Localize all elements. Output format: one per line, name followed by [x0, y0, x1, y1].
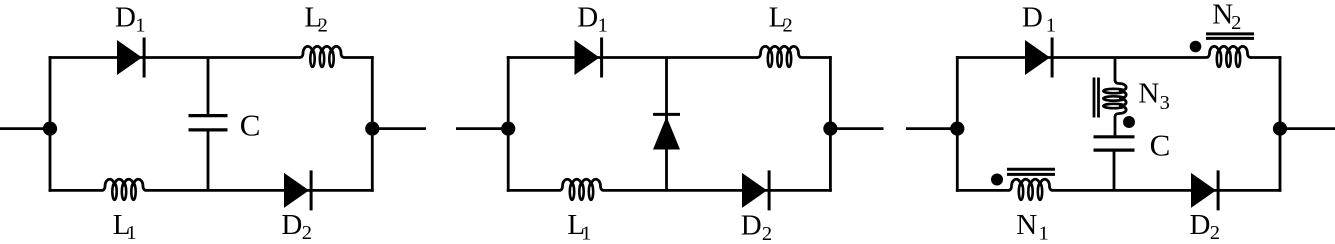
winding N1 (circuit3 bottom-left) [1008, 179, 1053, 200]
inductor L1 (circuit2) [559, 179, 604, 200]
svg-text:L2: L2 [769, 1, 793, 36]
diode D1 (circuit1) [117, 38, 144, 78]
svg-text:C: C [1150, 128, 1171, 163]
wire: circuit3 middle branch lower [1113, 152, 1116, 191]
diode D1 (circuit2) [575, 38, 602, 78]
wire: circuit3 left input lead [906, 127, 957, 130]
winding N3 (circuit3 middle branch) [1103, 80, 1126, 117]
polarity dot of winding N1 [991, 174, 1003, 186]
wire: circuit2 top rail right segment [802, 56, 832, 59]
wire: circuit2 bottom rail left segment [507, 189, 559, 192]
wire: circuit2 top rail left segment [507, 56, 757, 59]
wire: circuit2 right vertical [829, 56, 832, 192]
wire: circuit2 middle branch vertical [665, 58, 668, 191]
core bar upper of winding N2 [1206, 32, 1254, 35]
svg-text:D1: D1 [577, 1, 608, 36]
wire: circuit3 left vertical [956, 56, 959, 192]
wire: circuit3 right output lead [1280, 127, 1335, 130]
core bar lower of winding N2 [1206, 37, 1254, 40]
wire: circuit1 right output lead [372, 127, 426, 130]
svg-text:D2: D2 [281, 209, 312, 244]
wire: circuit1 bottom rail right segment [147, 189, 374, 192]
wire: circuit3 top rail left segment [956, 56, 1206, 59]
wire: circuit2 right output lead [830, 127, 883, 130]
node: circuit1 left terminal junction [43, 122, 57, 136]
wire: circuit2 left input lead [456, 127, 508, 130]
svg-text:D1: D1 [1022, 1, 1056, 36]
wire: circuit1 left vertical [49, 56, 52, 192]
inductor L2 (circuit2) [757, 46, 802, 67]
wire: circuit1 top rail right segment [345, 56, 374, 59]
wire: circuit1 right vertical [371, 56, 374, 192]
capacitor C (circuit1) [189, 116, 228, 130]
wire: circuit3 middle branch upper [1114, 58, 1117, 82]
node: circuit2 right terminal junction [823, 122, 837, 136]
wire: circuit1 middle branch upper [207, 58, 210, 115]
wire: circuit1 middle branch lower [207, 131, 210, 190]
diode D1 (circuit3) [1025, 38, 1052, 78]
wire: circuit2 bottom rail right segment [604, 189, 832, 192]
winding N2 (circuit3 top-right) [1206, 46, 1251, 67]
svg-text:D1: D1 [115, 1, 146, 36]
svg-text:L1: L1 [567, 209, 591, 244]
core bar lower of winding N1 [1007, 173, 1055, 176]
diode D2 (circuit3) [1191, 170, 1218, 210]
node: circuit3 right terminal junction [1273, 122, 1287, 136]
svg-text:D2: D2 [741, 210, 772, 244]
wire: circuit3 right vertical [1279, 56, 1282, 192]
diode D (circuit2 middle branch) [653, 114, 680, 149]
wire: circuit3 bottom rail right segment [1053, 189, 1281, 192]
svg-text:N3: N3 [1138, 77, 1169, 114]
core bar upper of winding N1 [1007, 168, 1055, 171]
wire: circuit1 left input lead [0, 127, 50, 130]
inductor L2 (circuit1) [300, 46, 345, 67]
core bar right of winding N3 [1097, 78, 1100, 118]
diode D2 (circuit2) [742, 170, 769, 210]
node: circuit3 left terminal junction [950, 122, 964, 136]
polarity dot of winding N2 [1190, 41, 1202, 53]
polarity dot of winding N3 [1123, 116, 1135, 128]
wire: circuit2 left vertical [507, 56, 510, 192]
svg-text:L1: L1 [113, 209, 137, 244]
wire: circuit1 bottom rail left segment [49, 189, 102, 192]
svg-text:N2: N2 [1212, 0, 1241, 34]
svg-text:C: C [240, 108, 261, 143]
capacitor C (circuit3) [1094, 137, 1135, 150]
inductor L1 (circuit1) [102, 179, 147, 200]
core bar left of winding N3 [1093, 78, 1096, 118]
wire: circuit3 top rail right segment [1251, 56, 1281, 59]
svg-text:L2: L2 [304, 1, 327, 36]
node: circuit2 left terminal junction [501, 122, 515, 136]
node: circuit1 right terminal junction [365, 122, 379, 136]
wire: circuit3 bottom rail left segment [956, 189, 1008, 192]
diode D2 (circuit1) [284, 170, 311, 210]
svg-text:D2: D2 [1190, 209, 1221, 244]
wire: circuit3 middle branch between N3 and C [1114, 117, 1117, 136]
wire: circuit1 top rail left segment [49, 56, 300, 59]
svg-text:N1: N1 [1016, 209, 1049, 244]
